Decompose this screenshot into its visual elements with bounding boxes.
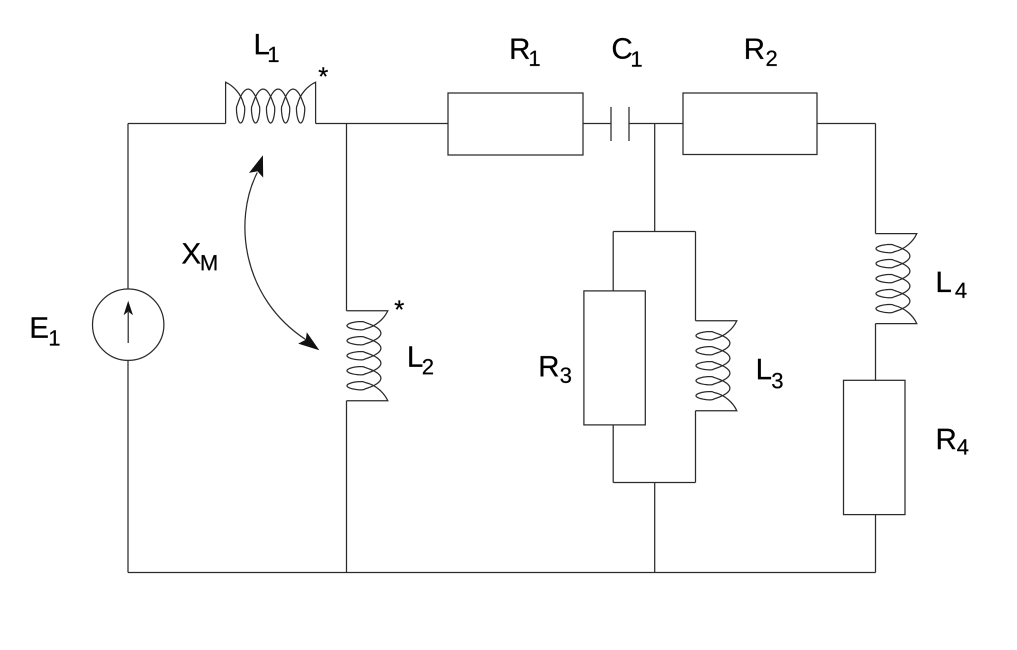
source E1 circle: [93, 289, 164, 360]
resistor R2: [683, 93, 817, 155]
resistor R1: [448, 93, 583, 155]
wire frame left lower: [612, 425, 614, 483]
wire middle branch lower: [654, 483, 656, 573]
source E1 arrowhead: [124, 301, 133, 316]
label R4: [938, 429, 968, 455]
label L3: [758, 359, 783, 389]
source E1 arrow shaft: [127, 312, 129, 343]
wire right rail down to L4: [875, 124, 877, 234]
label R2: [746, 39, 777, 66]
wire C1-to-R2 through node: [629, 123, 683, 125]
coupling arrowhead bottom: [298, 332, 319, 350]
wire L2 branch upper: [346, 124, 348, 311]
label L2: [409, 346, 433, 374]
wire middle branch upper: [654, 124, 656, 232]
wire frame right upper: [695, 232, 697, 321]
inductor L4: [876, 234, 917, 324]
wire parallel block frame top: [613, 231, 695, 233]
coupling arrowhead top: [249, 155, 263, 177]
label XM: [182, 243, 216, 270]
wire parallel block frame bottom: [613, 482, 695, 484]
mutual coupling arrow curve XM: [245, 173, 306, 340]
label L1: [256, 34, 279, 62]
inductor L1: [226, 82, 316, 123]
wire top rail L1-to-R1: [316, 123, 448, 125]
wire R2-to-right-corner: [817, 123, 876, 125]
wire R1-to-C1: [583, 123, 611, 125]
wire top rail left segment: [128, 123, 226, 125]
wire bottom rail: [128, 572, 876, 574]
wire L4-to-R4: [875, 324, 877, 381]
label E1: [32, 317, 60, 345]
inductor L3: [696, 321, 737, 411]
label R1: [512, 39, 540, 66]
label R3: [541, 356, 571, 383]
capacitor C1 plate left: [610, 107, 612, 141]
capacitor C1 plate right: [628, 107, 630, 141]
wire frame right lower: [695, 411, 697, 483]
polarity mark L1: [319, 67, 328, 76]
wire frame left upper: [612, 232, 614, 291]
wire left rail upper: [127, 124, 129, 290]
resistor R3: [584, 291, 645, 425]
wire left rail lower: [127, 360, 129, 572]
polarity mark L2: [395, 300, 404, 309]
wire R4 to bottom rail: [875, 515, 877, 573]
label L4: [938, 272, 967, 298]
wire L2 branch lower: [346, 401, 348, 573]
resistor R4: [844, 380, 906, 514]
inductor L2: [347, 311, 388, 401]
label C1: [613, 38, 642, 67]
